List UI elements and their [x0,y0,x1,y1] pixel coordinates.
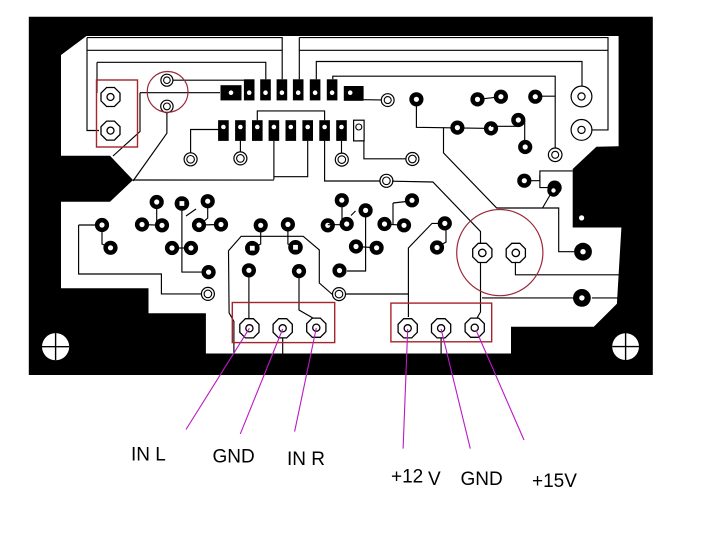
pad D3 [470,92,484,106]
wire diagonal X to big donut D12 [444,127,575,251]
header J2 pin 6 [302,120,313,141]
wire D6 to D7 [491,125,517,127]
wire bracket J2 pin3-pin7 [257,111,324,120]
wire jumper tick [351,211,356,216]
pad D2 [450,121,464,135]
wire D10b join [540,175,555,188]
pad D5 [528,90,542,104]
pad D10a [517,174,531,188]
pad [201,194,215,208]
wire bus B3 to header pin 3 [97,62,266,79]
header J1 pin 6 [310,79,321,100]
pad pin1 square hole [175,196,190,211]
pad [332,263,346,277]
wire [356,247,377,248]
header J2 pin 2 [235,120,246,141]
via R3 [380,174,393,187]
pad [335,193,349,207]
via R4 [548,148,562,162]
pad [340,217,354,231]
pad [359,203,373,217]
wire left vertical to pad P2 [87,38,99,131]
pad [292,264,306,278]
wire J2 pin7 to via R3 [325,141,380,181]
header J1 pin 2 [244,79,255,100]
wire to power pin1 [408,223,444,317]
wire J2 pin8 to via [341,141,343,153]
wire [142,224,162,227]
pad [430,240,444,254]
callout line IN R [295,328,317,432]
wire D7 to D9 [524,121,526,144]
pad [202,265,216,279]
pad [95,218,109,232]
wire J2 pin1 to via [191,130,224,154]
pad D1 [409,92,423,106]
header J2 pin 1 [218,120,229,141]
via GND [333,288,346,301]
pad Q pin1 [161,74,173,86]
wire to big donut D13 [482,297,573,299]
pad TO3 B [506,243,525,262]
wire [102,229,111,248]
svg-text:V: V [428,469,441,490]
wire D3-D4 [478,97,501,100]
wire J2 pin6 drop [274,141,308,177]
pad [377,217,391,231]
pad Q pin2 [161,100,173,112]
wire [253,230,261,248]
header J2 pin 8 [336,120,347,141]
header J1 pin 5 [293,79,304,100]
callout line GND power [441,329,470,449]
wire bus B0 right to via R6 [299,38,608,130]
via R6 [571,119,592,140]
callout line GND input [240,329,282,434]
wire D10a to pour [524,171,572,181]
header J1 pin 7 [327,79,338,100]
wire [199,224,221,227]
pad [214,217,228,231]
wire [392,203,394,224]
pad [397,218,411,232]
pad [254,218,268,232]
via [184,153,197,166]
wire diagonal to pour corner [113,93,140,156]
pad [438,216,452,230]
wire jumper tick [186,209,196,216]
svg-text:GND: GND [213,447,255,468]
wire [347,216,366,271]
big pad D12 [574,243,592,261]
wire D13 to pour [592,297,622,299]
wire J2 pin9 to via R2 [359,141,406,159]
pad square hole [245,241,260,256]
svg-text:+15V: +15V [532,471,577,492]
header J2 pin 3 [252,120,263,141]
wire ground tip horizontal [133,179,274,181]
callout line IN L [186,328,249,429]
wire J1 pin8 to via R1 [364,99,381,101]
wire ground around transistors [229,236,334,355]
svg-text:IN L: IN L [131,445,166,466]
header J2 pin 4 [269,120,280,141]
wire ring pad A to header pin 2 [173,79,246,81]
wire bus B0 left to header pin 4 [87,38,282,80]
wire bus B4 pin6 to via R5 [316,62,582,88]
wire bus B5 pin7 to via R4 [333,76,555,148]
mounting hole left [42,333,69,360]
wire D11 stub [543,194,552,209]
pad [370,241,384,255]
wire ground loop left [79,225,201,294]
header J1 pin 4 [277,79,288,100]
via [234,152,247,165]
header J1 pin 8 [344,86,364,101]
red circle component outline TO-3 transistor [457,210,543,296]
pad [281,217,295,231]
pad square hole [288,240,303,255]
power pin GND [432,319,451,338]
via GND [201,287,214,300]
header J2 pin 9 (unfilled) [354,120,365,141]
via hole in pour [579,215,584,220]
input pin IN L [240,319,259,338]
wire [79,224,102,226]
pad [155,218,169,232]
header J1 pin 3 [260,79,271,100]
wire to header pin 1 [140,92,220,94]
pad P2 [101,121,120,140]
callout line +12V [403,329,408,449]
pad [103,241,117,255]
wire [437,228,446,248]
wire to IN L pin [248,276,250,320]
pad D10b [548,181,562,195]
red circle component outline top-left [147,72,188,113]
header J2 pin 5 [286,120,297,141]
wire J2 pin2 to via [239,141,241,152]
pad [242,263,256,277]
pad [165,241,179,255]
power pin +15V [465,318,484,337]
wire [156,208,158,225]
wire [393,201,411,203]
PCB board ground pour (black) [29,17,653,375]
pad D11 [547,184,559,196]
pad TO3 E [473,243,492,262]
wire header pin 5 stub [298,38,300,80]
svg-text:IN R: IN R [287,449,325,470]
wire ring pad B to pour tip [133,113,167,181]
wire diagonal Y via R3 to big pad B1 and power pin3 [392,181,481,322]
pad D7 [511,113,525,127]
input pin GND [273,319,292,338]
wire big pad B2 to pour [515,263,619,304]
pad [135,217,149,231]
pad [321,218,335,232]
wire drop to pad P1 [96,62,98,93]
pad [349,239,363,253]
input connector outline (red) [232,303,334,343]
mounting hole right [612,333,639,360]
wire [172,247,191,249]
big pad D13 [573,289,591,307]
wire [328,224,347,226]
header J1 pin 1 [221,85,242,100]
wire D1 down to D2 D6 [416,99,491,128]
via R5 [571,86,592,107]
power connector outline (red) [391,303,492,342]
pad D4 [494,90,508,104]
wire GND stub power [440,336,442,354]
via R2 [406,153,419,166]
pad D6 [484,121,498,135]
wire sq pad down [182,210,202,272]
wire bus B1 [87,49,282,51]
wire bus B2 [299,49,608,51]
pad [192,218,206,232]
wire [385,224,405,225]
pad [405,193,419,207]
wire ground via to power trace [333,293,408,295]
input pin IN R [307,318,326,337]
pad P1 [101,88,120,107]
wire J2 pin4 riser [273,141,275,180]
power pin +12V [398,319,417,338]
via R1 (double ring) [381,94,394,107]
wire [341,207,343,225]
wire D5 to bus [535,95,555,97]
svg-text:GND: GND [461,469,503,490]
wire GND stub input [282,336,284,354]
pad D9 [518,140,532,154]
wire to IN R pin [299,276,316,320]
svg-text:+12: +12 [391,467,423,488]
header J2 pin 7 [319,120,330,141]
pad [184,241,198,255]
red rectangle component outline top-left [97,80,138,147]
wire [288,230,296,247]
callout line +15V [476,330,524,440]
wire [200,208,208,225]
pad [150,195,164,209]
via [335,153,348,166]
